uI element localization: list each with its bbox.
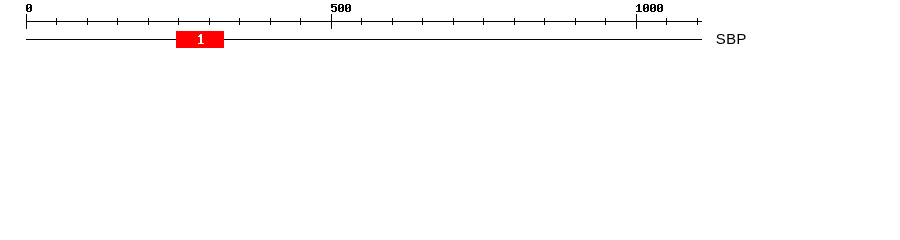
svg-text:SBP: SBP xyxy=(716,31,747,48)
ruler label 0 xyxy=(26,4,32,12)
domain number 1 (white) xyxy=(198,34,204,44)
background xyxy=(0,0,900,58)
feature baseline wire xyxy=(26,39,702,40)
domain box 1 (red) xyxy=(176,31,224,48)
ruler label 500 xyxy=(331,4,351,12)
ruler axis line xyxy=(26,21,702,22)
ruler label 1000 xyxy=(636,4,663,12)
ruler minor ticks xyxy=(56,18,698,25)
ruler major ticks 0,500,1000 xyxy=(26,14,637,29)
